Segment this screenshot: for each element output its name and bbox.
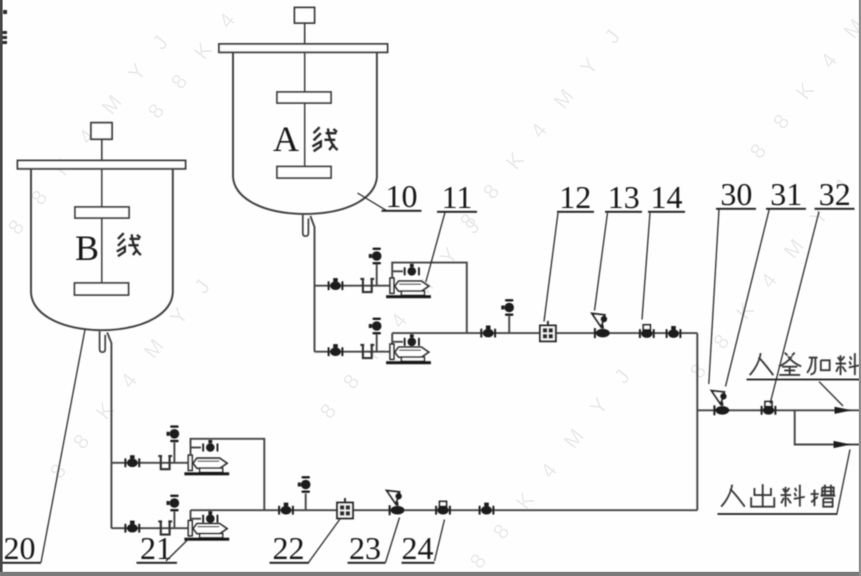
svg-text:24: 24 <box>402 530 434 566</box>
svg-text:13: 13 <box>608 179 640 215</box>
svg-text:32: 32 <box>819 176 851 212</box>
svg-text:10: 10 <box>386 178 418 214</box>
svg-text:23: 23 <box>349 530 381 566</box>
svg-text:31: 31 <box>770 176 802 212</box>
svg-text:30: 30 <box>720 176 752 212</box>
svg-text:11: 11 <box>442 179 473 215</box>
svg-text:21: 21 <box>140 530 172 566</box>
svg-text:14: 14 <box>651 179 683 215</box>
svg-text:20: 20 <box>4 530 36 566</box>
svg-text:12: 12 <box>559 179 591 215</box>
svg-text:A: A <box>273 119 299 159</box>
svg-text:B: B <box>75 228 99 268</box>
svg-text:22: 22 <box>273 530 305 566</box>
